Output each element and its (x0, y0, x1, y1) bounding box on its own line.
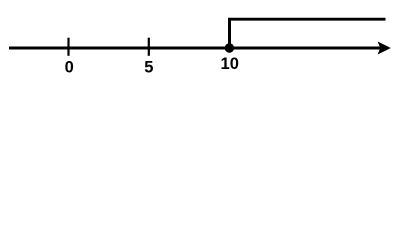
svg-text:5: 5 (144, 59, 153, 77)
svg-text:10: 10 (221, 55, 239, 73)
svg-text:0: 0 (65, 59, 74, 77)
tick 0 (67, 38, 69, 56)
tick 5 (148, 38, 150, 56)
axis arrowhead (right) (378, 42, 391, 55)
number line axis (9, 47, 381, 50)
ray horizontal segment (228, 18, 386, 21)
ray vertical segment at 10 (228, 19, 231, 48)
closed point at 10 (225, 43, 234, 52)
